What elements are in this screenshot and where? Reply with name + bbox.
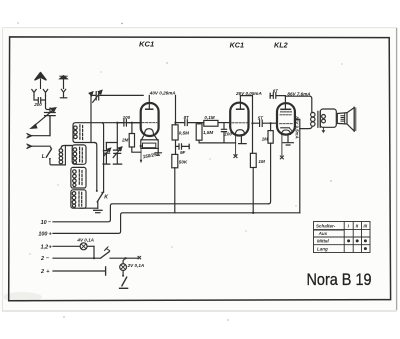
filament switch: [101, 247, 138, 258]
tube KC1 no1: [141, 95, 159, 136]
tube3 grid stem to x: [281, 135, 283, 156]
svg-text:0,1M: 0,1M: [204, 115, 214, 120]
node grid3: [270, 122, 272, 124]
title Nora B 19: [307, 271, 372, 289]
bus H2 HT+: [53, 213, 300, 234]
filament wire 2-: [53, 257, 101, 259]
resistor 150/250: [141, 140, 158, 149]
svg-text:–: –: [48, 220, 51, 226]
coil A (grid coil): [73, 123, 140, 143]
antenna symbol: [35, 73, 46, 89]
screen to transformer return: [300, 127, 312, 129]
transformer core: [318, 111, 320, 127]
svg-text:1,5M: 1,5M: [203, 130, 213, 135]
node 5T tap: [251, 122, 253, 124]
svg-text:100: 100: [224, 131, 232, 136]
wire tube2 plate top: [240, 96, 252, 154]
switch below lamp2: [120, 277, 128, 288]
svg-text:26V 0,05mA: 26V 0,05mA: [235, 91, 262, 96]
switch L: [46, 147, 65, 165]
wire plug2 to switch L: [32, 145, 51, 147]
svg-text:Lang: Lang: [317, 246, 328, 251]
svg-text:2M: 2M: [121, 137, 129, 142]
svg-text:8T: 8T: [184, 115, 189, 120]
speaker horn: [347, 107, 356, 131]
ground below switch K: [94, 210, 102, 212]
coil C boxed: [71, 167, 86, 188]
svg-text:Nora B 19: Nora B 19: [307, 271, 372, 289]
table dots: [347, 239, 367, 250]
bus H1 grid bias: [53, 204, 269, 222]
lamp drop wire: [93, 246, 95, 258]
wire plug1 to trimmer: [32, 116, 50, 136]
svg-text:10: 10: [41, 220, 47, 226]
svg-text:50K: 50K: [179, 159, 188, 164]
wire coil D to ground: [80, 207, 98, 209]
svg-text:2: 2: [40, 256, 44, 262]
x mark tube2: [234, 155, 237, 158]
resistor 1M grid: [268, 123, 273, 204]
antenna trimmer capacitor: [31, 104, 56, 136]
scan specks: [17, 22, 342, 320]
node drop junction: [93, 257, 95, 259]
svg-text:2: 2: [40, 269, 44, 275]
svg-text:4V 0,1A: 4V 0,1A: [76, 237, 94, 242]
wire coil feed to coil B: [65, 145, 72, 147]
node below lamp2: [122, 275, 124, 277]
x mark tube3: [280, 156, 283, 159]
resistor 1M plate load: [250, 153, 256, 213]
svg-text:200: 200: [33, 102, 42, 107]
svg-text:Mittel: Mittel: [317, 239, 329, 244]
node HT junction: [252, 212, 254, 214]
coil B: [72, 145, 86, 164]
node cathode1: [140, 145, 142, 147]
tube KL2: [277, 96, 295, 134]
capacitor 100 (grid): [117, 120, 132, 126]
wire grid to tube1: [132, 122, 141, 124]
node grid1 junction: [116, 122, 118, 124]
tube1 skirt: [142, 136, 158, 140]
svg-text:Aus: Aus: [318, 231, 328, 236]
reaction trimmer on plate wire: [89, 90, 143, 102]
switch K: [96, 190, 104, 208]
plate rail down: [175, 95, 177, 124]
node grid1b junction: [131, 122, 133, 124]
filament wire 2+: [53, 267, 106, 275]
bias arrow down: [140, 147, 143, 163]
border frame: [9, 37, 391, 301]
wire plate3 to transformer: [285, 96, 312, 112]
plug P2: [27, 144, 32, 148]
lamp 2V: [120, 258, 127, 275]
svg-text:0,5M: 0,5M: [179, 130, 189, 135]
wire plate drop left: [90, 95, 92, 142]
svg-text:9F: 9F: [180, 150, 186, 155]
resistor 50K: [172, 154, 178, 212]
svg-text:6T: 6T: [273, 88, 278, 93]
tuning trimmer 2 (main): [113, 147, 122, 164]
earth terminal symbol: [60, 76, 67, 98]
screen tap: [295, 119, 300, 213]
resistor 1,5M: [196, 123, 235, 143]
resistor 0,5M: [172, 125, 178, 155]
svg-text:+: +: [46, 269, 49, 275]
svg-text:KC1: KC1: [139, 40, 154, 49]
ground at 150/250: [155, 148, 162, 155]
svg-text:1,2: 1,2: [41, 244, 49, 250]
antenna terminal forks: [32, 90, 36, 96]
tube3 cathode ground: [283, 135, 294, 146]
can ground arrow: [322, 127, 326, 133]
plug P1: [27, 134, 32, 138]
speaker driver: [337, 113, 347, 124]
resistor 2M: [129, 123, 141, 153]
wire grid drop to switch K: [102, 123, 103, 193]
capacitor 8T: [176, 120, 204, 126]
svg-text:Schalter-: Schalter-: [316, 223, 336, 228]
svg-text:+: +: [49, 232, 52, 238]
svg-text:KL2: KL2: [274, 40, 288, 49]
x mark filament end: [138, 256, 141, 259]
capacitor 200: [34, 96, 46, 104]
svg-text:40V 0,26mA: 40V 0,26mA: [149, 91, 176, 96]
scanner shadow bottom-left: [2, 292, 42, 302]
tube2 cathode ground: [239, 135, 247, 144]
tube KC1 no2: [230, 96, 248, 136]
svg-text:–: –: [46, 256, 49, 262]
svg-text:2V 0,1A: 2V 0,1A: [127, 263, 145, 268]
svg-text:100: 100: [123, 115, 131, 120]
svg-text:KC1: KC1: [230, 40, 244, 49]
svg-text:100: 100: [38, 231, 47, 237]
svg-text:86V 7,6mA: 86V 7,6mA: [287, 91, 310, 96]
dial lamp 4V: [53, 243, 94, 250]
svg-text:86V 9,5mA: 86V 9,5mA: [295, 116, 300, 138]
wire coilA bottom to lower run: [95, 143, 97, 191]
resistor 0,1M: [204, 120, 230, 126]
svg-text:L: L: [42, 154, 45, 160]
coil D boxed: [71, 190, 86, 208]
switch table: [314, 222, 371, 253]
speaker can with secondary: [320, 109, 336, 127]
svg-text:+: +: [49, 245, 52, 251]
capacitor 6T: [270, 93, 285, 98]
node plate1: [174, 122, 176, 124]
capacitor 100 (tube2 grid): [221, 123, 226, 143]
node lamp2 tap: [125, 257, 127, 259]
svg-text:1M: 1M: [258, 159, 265, 164]
capacitor 5T: [253, 120, 277, 126]
svg-text:1M: 1M: [262, 137, 269, 142]
antenna coupling coil: [59, 146, 72, 165]
tube2 grid stem to x: [235, 135, 237, 154]
tuning trimmer 1: [103, 123, 117, 164]
output transformer primary: [311, 112, 315, 126]
svg-text:5T: 5T: [258, 115, 263, 120]
capacitor 9F: [176, 144, 190, 149]
